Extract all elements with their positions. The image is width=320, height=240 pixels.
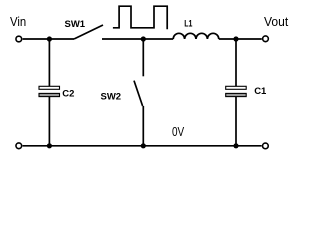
junction top-right: [233, 36, 238, 41]
capacitor C1: [226, 86, 247, 96]
wire L1 to Vout: [219, 38, 262, 40]
switch SW2 blade: [134, 81, 143, 106]
junction bottom-right: [233, 143, 238, 148]
wire C1 top lead: [235, 39, 237, 86]
terminal bottom-right: [263, 143, 269, 149]
capacitor C2: [39, 86, 60, 96]
svg-text:C1: C1: [254, 86, 267, 97]
drive waveform (square wave): [113, 6, 167, 29]
wire Vin to SW1 pole: [23, 38, 74, 40]
svg-text:Vout: Vout: [264, 14, 289, 29]
svg-text:L1: L1: [184, 19, 193, 30]
junction bottom-left: [47, 143, 52, 148]
wire SW1 contact to L1: [102, 38, 173, 40]
junction bottom-middle: [141, 143, 146, 148]
switch SW1 blade: [74, 25, 103, 39]
wire SW2 bottom lead: [142, 106, 144, 146]
terminal bottom-left: [16, 143, 22, 149]
svg-text:SW2: SW2: [101, 92, 122, 103]
svg-text:C2: C2: [62, 89, 74, 100]
wire SW2 top lead: [142, 39, 144, 76]
junction top-middle: [141, 36, 146, 41]
wire C2 top lead: [48, 39, 50, 86]
svg-text:0V: 0V: [172, 124, 184, 139]
svg-text:Vin: Vin: [10, 14, 26, 29]
svg-text:SW1: SW1: [65, 19, 86, 30]
wire C1 bottom lead: [235, 97, 237, 146]
junction top-left: [47, 36, 52, 41]
wire C2 bottom lead: [48, 97, 50, 146]
terminal Vout: [263, 36, 269, 42]
terminal Vin: [16, 36, 22, 42]
wire bottom rail: [23, 145, 262, 147]
inductor L1: [173, 33, 219, 39]
